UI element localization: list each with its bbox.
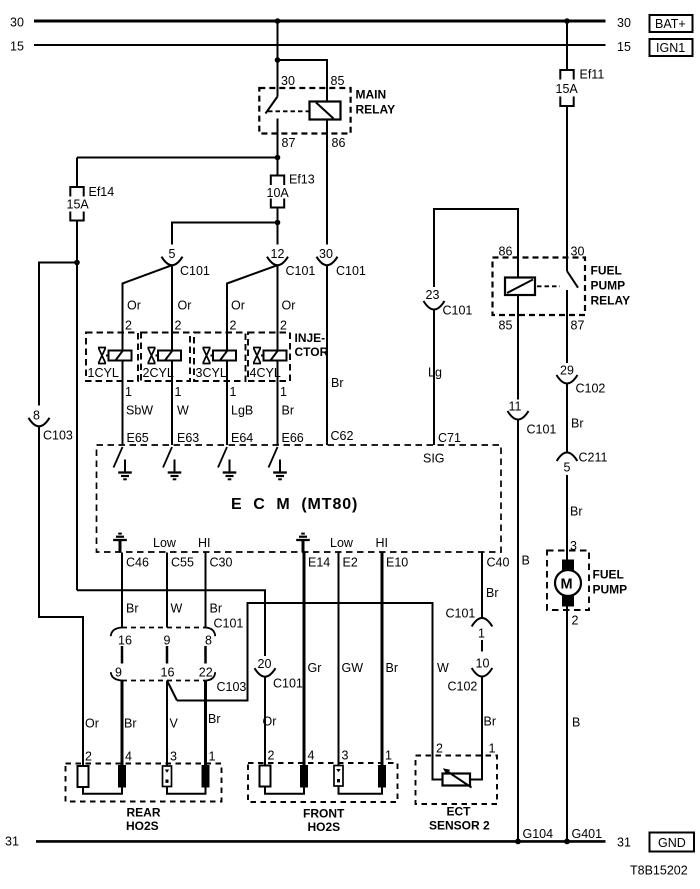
wire between C101-1 and C102-10 (481, 640, 483, 652)
svg-text:C55: C55 (171, 556, 194, 570)
wire branch to connector C103 pin 8 (39, 263, 77, 406)
svg-text:W: W (437, 661, 449, 675)
relay MAIN RELAY dashed enclosure (259, 88, 350, 134)
svg-text:1: 1 (125, 385, 132, 399)
injector 2 coil and valve symbol (148, 348, 182, 364)
svg-text:Or: Or (178, 299, 192, 313)
front HO2S heater element (pin2) (260, 766, 271, 787)
wire fuel pump relay pin 85 down to connector C101 pin 11 (517, 295, 519, 400)
svg-text:87: 87 (571, 319, 585, 333)
svg-text:15A: 15A (556, 82, 579, 96)
svg-text:10: 10 (476, 657, 490, 671)
connector C101 pin 30 (317, 247, 366, 278)
svg-text:8: 8 (205, 634, 212, 648)
injector 2CYL dashed box (141, 333, 190, 382)
wire ECM C46 down to connector row C101 (121, 553, 123, 628)
svg-text:GW: GW (342, 661, 364, 675)
svg-text:9: 9 (115, 666, 122, 680)
svg-text:86: 86 (332, 136, 346, 150)
svg-text:Br: Br (484, 715, 497, 729)
connector C102 pin 29 (557, 364, 606, 396)
connector C101 pin 20 (255, 657, 303, 691)
svg-text:REAR: REAR (127, 806, 161, 820)
ECM internal driver switch and ground for E63 (163, 447, 181, 479)
label FUEL PUMP (593, 568, 628, 597)
svg-text:87: 87 (282, 136, 296, 150)
sensor REAR HO2S dashed box (66, 764, 222, 802)
node BAT+ terminal box (650, 15, 693, 32)
svg-text:Br: Br (282, 404, 295, 418)
svg-text:30: 30 (571, 245, 585, 259)
svg-text:2: 2 (230, 319, 237, 333)
svg-text:9: 9 (164, 634, 171, 648)
junction dot pin87 to Ef14 branch (275, 155, 281, 161)
wire C101-12 to injector 3 (diagonal) (227, 265, 278, 350)
svg-text:G401: G401 (572, 827, 603, 841)
wire C101 row to C103 row (pin8-22) (204, 646, 207, 664)
svg-text:30: 30 (617, 16, 631, 30)
thermistor ECT element (443, 768, 472, 787)
junction dot on bus 30 at main relay feed (275, 18, 281, 24)
connector C101 pin 5 (162, 247, 210, 278)
svg-text:1: 1 (280, 385, 287, 399)
wire C103 pin9 down to rear HO2S pin 4 (121, 681, 124, 766)
svg-text:C103: C103 (43, 429, 73, 443)
svg-text:30: 30 (281, 74, 295, 88)
svg-text:Br: Br (126, 602, 139, 616)
junction dot main feed split to relay coil (275, 57, 281, 63)
sensor FRONT HO2S dashed box (248, 763, 398, 802)
rear HO2S element pin1 (202, 765, 210, 788)
svg-text:Br: Br (124, 717, 137, 731)
svg-text:Lg: Lg (428, 366, 442, 380)
svg-text:C102: C102 (448, 680, 478, 694)
wire main relay pin 86 down to C101 pin 30 (326, 120, 328, 245)
svg-text:2: 2 (268, 749, 275, 763)
wire C101-5 to injector 1 (diagonal) (123, 265, 173, 350)
wire fuel pump pin 2 down to ground G401 (566, 607, 568, 842)
wire C101 pin20 down to front HO2S pin 2 (264, 677, 266, 766)
wire fuel pump relay pin 87 down to connector C102 pin 29 (566, 290, 568, 363)
wire ECM E14 down to front HO2S pin 4 (303, 553, 306, 766)
wire injector 3 pin 1 to ECM E64 (226, 361, 228, 446)
label FUEL PUMP RELAY (591, 264, 631, 308)
wire ECM C40 down (481, 553, 483, 619)
junction dot Ef13 output split (275, 220, 281, 226)
svg-text:W: W (177, 404, 189, 418)
svg-text:C101: C101 (180, 264, 210, 278)
relay MAIN RELAY switch arm (pin 30 to 87) (266, 97, 278, 114)
svg-text:16: 16 (118, 634, 132, 648)
ECM internal driver switch and ground for E65 (114, 447, 132, 479)
front HO2S element pin4 (300, 765, 308, 788)
svg-text:4: 4 (308, 749, 315, 763)
svg-text:V: V (170, 717, 179, 731)
svg-text:C211: C211 (579, 451, 608, 465)
svg-text:C102: C102 (576, 382, 606, 396)
svg-text:FRONT: FRONT (303, 807, 345, 821)
relay FUEL PUMP RELAY actuation dashed link (537, 285, 560, 287)
motor FUEL PUMP dashed box (547, 551, 589, 611)
svg-text:E65: E65 (127, 431, 149, 445)
svg-text:85: 85 (499, 319, 513, 333)
connector C101 pin 23 (424, 288, 473, 318)
svg-text:1: 1 (489, 742, 496, 756)
svg-text:C101: C101 (214, 617, 244, 631)
svg-text:Low: Low (153, 536, 177, 550)
wire C211 pin5 down to fuel pump pin 3 (566, 475, 568, 560)
svg-text:Gr: Gr (308, 661, 322, 675)
injector 4 coil and valve symbol (253, 348, 287, 364)
svg-text:C101: C101 (527, 423, 557, 437)
svg-text:PUMP: PUMP (593, 583, 628, 597)
svg-text:2: 2 (175, 319, 182, 333)
wire injector 1 pin 1 to ECM E65 (122, 361, 124, 446)
wire ECM C30 down to connector row C101 (205, 553, 207, 628)
wire main relay pin 87 down (277, 119, 279, 177)
svg-text:2CYL: 2CYL (143, 366, 174, 380)
ground G104 junction dot (515, 839, 521, 845)
label FRONT HO2S (303, 807, 345, 835)
svg-text:G104: G104 (523, 827, 554, 841)
svg-text:C40: C40 (487, 556, 510, 570)
svg-text:C46: C46 (126, 556, 149, 570)
wire C103 pin16 down to rear HO2S pin 3 (166, 681, 168, 767)
svg-text:Low: Low (330, 536, 354, 550)
svg-text:Or: Or (263, 715, 277, 729)
wire Ef13 output down (277, 208, 279, 245)
motor M fuel pump (555, 560, 581, 607)
svg-text:SbW: SbW (126, 404, 153, 418)
svg-text:C101: C101 (273, 677, 303, 691)
wire front HO2S internal link pins 2-4 (265, 787, 304, 794)
svg-text:IGN1: IGN1 (656, 41, 685, 55)
svg-text:ECT: ECT (447, 805, 472, 819)
wire front HO2S internal link pins 3-1 (339, 786, 383, 794)
relay FUEL PUMP RELAY coil (505, 278, 535, 296)
ECM internal ground above pin C46 (113, 534, 127, 553)
svg-text:15A: 15A (67, 198, 90, 212)
svg-text:29: 29 (560, 364, 574, 378)
svg-text:C71: C71 (438, 431, 461, 445)
wire injector 4 pin 1 to ECM E66 (277, 361, 279, 446)
wire ECM C55 down to connector row C101 (166, 553, 168, 628)
svg-text:1CYL: 1CYL (88, 366, 119, 380)
svg-text:3CYL: 3CYL (196, 366, 227, 380)
rear HO2S heater element (pin2) (78, 766, 89, 787)
svg-text:FUEL: FUEL (593, 568, 624, 582)
relay FUEL PUMP RELAY switch arm (pin 30 to 87) (567, 271, 578, 288)
wire Ef14 feed across to front HO2S pin 2 (77, 590, 265, 656)
svg-text:Br: Br (386, 661, 399, 675)
rear HO2S sense element (pin3) (163, 766, 172, 787)
svg-text:BAT+: BAT+ (655, 17, 686, 31)
svg-text:Or: Or (85, 717, 99, 731)
svg-text:1: 1 (385, 749, 392, 763)
svg-text:M: M (561, 577, 573, 593)
svg-text:Br: Br (331, 376, 344, 390)
wire branch to main relay pin 85 (278, 60, 328, 102)
wire branch to connector C101 pin 5 (172, 223, 278, 245)
svg-text:2: 2 (85, 750, 92, 764)
svg-text:30: 30 (319, 247, 333, 261)
ECM internal driver switch and ground for E64 (218, 447, 236, 479)
svg-text:PUMP: PUMP (591, 279, 626, 293)
svg-text:86: 86 (499, 245, 513, 259)
svg-text:12: 12 (271, 247, 285, 261)
wire ECM E2 down to front HO2S pin 3 (338, 553, 340, 767)
wire C101-5 to injector 2 (171, 265, 173, 350)
connector C101 pin 1 (446, 607, 493, 641)
svg-text:16: 16 (161, 666, 175, 680)
fuse Ef13 10A (267, 173, 315, 208)
wire branch 87 to fuse Ef14 (77, 157, 278, 159)
svg-text:30: 30 (10, 16, 24, 30)
junction dot Ef14 output to C103 branch (74, 260, 80, 266)
label ECT SENSOR 2 (429, 805, 490, 833)
wire C101-12 to injector 4 (277, 265, 279, 350)
svg-text:22: 22 (199, 666, 213, 680)
svg-text:85: 85 (331, 74, 345, 88)
label REAR HO2S (126, 806, 161, 834)
wire injector 2 pin 1 to ECM E63 (171, 361, 173, 446)
svg-text:2: 2 (572, 614, 579, 628)
svg-text:RELAY: RELAY (356, 103, 396, 117)
svg-text:E C M (MT80): E C M (MT80) (231, 496, 358, 513)
svg-text:Br: Br (210, 602, 223, 616)
wire C101 pin11 down to ground G104 (517, 420, 519, 842)
node IGN1 terminal box (650, 39, 693, 56)
svg-text:E2: E2 (343, 556, 358, 570)
connector row C103 (pins 9,16,22) (111, 666, 247, 695)
fuse Ef11 15A (556, 21, 605, 106)
svg-text:3: 3 (342, 749, 349, 763)
wire link to ECT sensor (horizontal+vertical) (177, 603, 433, 756)
svg-text:31: 31 (5, 835, 19, 849)
svg-text:E66: E66 (282, 431, 304, 445)
svg-text:11: 11 (509, 400, 522, 414)
svg-text:C101: C101 (446, 607, 476, 621)
ECM internal ground above pin E14 (296, 534, 310, 553)
svg-text:Ef11: Ef11 (580, 68, 605, 82)
svg-text:INJE-: INJE- (295, 331, 326, 345)
svg-text:E64: E64 (231, 431, 253, 445)
svg-text:5: 5 (169, 247, 176, 261)
svg-text:C62: C62 (331, 429, 354, 443)
svg-text:1: 1 (175, 385, 182, 399)
wire C101 row to C103 row (pin16-9) (121, 646, 124, 664)
svg-text:E63: E63 (177, 431, 199, 445)
svg-text:C101: C101 (443, 304, 473, 318)
svg-text:FUEL: FUEL (591, 264, 622, 278)
injector 3 coil and valve symbol (203, 348, 237, 364)
svg-text:E10: E10 (386, 556, 408, 570)
wire Ef14 output down left column (76, 221, 78, 591)
svg-text:4CYL: 4CYL (250, 366, 281, 380)
connector row C101 (pins 16,9,8) (111, 617, 244, 648)
svg-text:GND: GND (658, 836, 686, 850)
wire Ef11 output down to fuel pump relay pin 30 (566, 106, 568, 271)
fuse Ef14 15A (67, 158, 115, 221)
svg-text:23: 23 (426, 288, 440, 302)
svg-text:LgB: LgB (231, 404, 253, 418)
svg-text:10A: 10A (267, 186, 290, 200)
connector C103 pin 8 (29, 409, 73, 443)
label INJECTOR (295, 331, 329, 359)
node GND terminal box (650, 833, 695, 852)
svg-text:Ef13: Ef13 (289, 173, 315, 187)
svg-text:20: 20 (258, 657, 272, 671)
ECM internal driver switch and ground for E66 (269, 447, 287, 479)
wire bus 30 (BAT+) (34, 20, 606, 23)
connector C211 pin 5 (557, 451, 608, 475)
front HO2S sense element (pin3) (334, 766, 343, 787)
connector C102 pin 10 (448, 657, 493, 694)
wire C102 pin10 down to ECT sensor pin 1 (481, 677, 483, 756)
relay MAIN RELAY actuation dashed link (268, 110, 309, 112)
svg-text:5: 5 (564, 461, 571, 475)
svg-text:1: 1 (209, 750, 216, 764)
wire C101-30 down to ECM pin C62 (326, 265, 328, 445)
svg-text:Or: Or (231, 299, 245, 313)
svg-text:SIG: SIG (423, 452, 445, 466)
svg-text:15: 15 (617, 40, 631, 54)
wire rear HO2S internal link pins 3-1 (167, 787, 206, 794)
svg-text:Or: Or (282, 299, 296, 313)
ground G401 junction dot (564, 839, 570, 845)
svg-text:RELAY: RELAY (591, 294, 631, 308)
svg-text:1: 1 (478, 627, 485, 641)
wire ECM C71 (SIG) up to connector C101 pin 23 (433, 309, 435, 445)
svg-text:Br: Br (208, 712, 221, 726)
wire SIG to fuel pump relay pin 86 (434, 209, 518, 287)
injector 4CYL dashed box (248, 333, 290, 382)
wire bus 31 (GND) (36, 840, 606, 843)
svg-text:E14: E14 (308, 556, 330, 570)
svg-text:HI: HI (376, 536, 389, 550)
wire bus30 down to main relay pin 30 (277, 21, 279, 97)
svg-text:2: 2 (436, 742, 443, 756)
injector 1 coil and valve symbol (98, 348, 132, 364)
svg-text:W: W (171, 602, 183, 616)
wire ECT pin1 into thermistor (470, 756, 482, 780)
svg-text:C103: C103 (217, 680, 247, 694)
svg-text:C30: C30 (210, 556, 233, 570)
relay MAIN RELAY coil (310, 102, 341, 120)
svg-text:T8B15202: T8B15202 (630, 864, 688, 878)
rear HO2S element pin4 (118, 765, 126, 788)
svg-text:15: 15 (10, 40, 24, 54)
svg-text:2: 2 (280, 319, 287, 333)
wire ECM E10 down to front HO2S pin 1 (381, 553, 384, 766)
injector 1CYL dashed box (86, 333, 138, 382)
wire bus 15 (IGN1) (34, 44, 606, 46)
junction dot on bus 30 at Ef11 feed (564, 18, 570, 24)
wire C103 pin16 branch diagonal (167, 681, 177, 701)
sensor ECT SENSOR 2 dashed box (416, 756, 498, 805)
svg-text:HO2S: HO2S (126, 819, 159, 833)
wire C102 pin29 down to C211 (566, 384, 568, 453)
svg-text:4: 4 (125, 750, 132, 764)
svg-text:Ef14: Ef14 (89, 185, 115, 199)
svg-text:B: B (572, 716, 580, 730)
svg-text:Or: Or (127, 299, 141, 313)
svg-text:1: 1 (230, 385, 237, 399)
svg-text:2: 2 (125, 319, 132, 333)
wire C103 pin22 down to rear HO2S pin 1 (204, 681, 207, 766)
connector C101 pin 12 (267, 247, 315, 278)
svg-text:SENSOR 2: SENSOR 2 (429, 819, 490, 833)
svg-text:31: 31 (617, 836, 631, 850)
svg-text:C101: C101 (336, 264, 366, 278)
op-amp ECM (MT80) dashed enclosure (97, 445, 502, 552)
svg-text:Br: Br (570, 505, 583, 519)
svg-text:8: 8 (33, 409, 40, 423)
wire C103 pin8 down to rear HO2S pin 2 (39, 426, 83, 766)
connector C101 pin 11 (508, 400, 557, 437)
relay FUEL PUMP RELAY dashed enclosure (493, 258, 586, 316)
svg-text:CTOR: CTOR (295, 345, 329, 359)
svg-text:3: 3 (170, 750, 177, 764)
svg-text:Br: Br (486, 586, 499, 600)
svg-text:Br: Br (571, 417, 584, 431)
wire C101 row to C103 row (pin9-16) (166, 646, 169, 664)
injector 3CYL dashed box (194, 333, 246, 382)
front HO2S element pin1 (378, 765, 386, 788)
svg-text:HO2S: HO2S (308, 820, 341, 834)
svg-text:B: B (522, 554, 530, 568)
svg-text:C101: C101 (286, 264, 316, 278)
wire rear HO2S internal link pins 2-4 (83, 787, 122, 794)
svg-text:MAIN: MAIN (356, 88, 387, 102)
svg-text:HI: HI (198, 536, 211, 550)
wire ECT pin2 into thermistor (433, 756, 443, 780)
